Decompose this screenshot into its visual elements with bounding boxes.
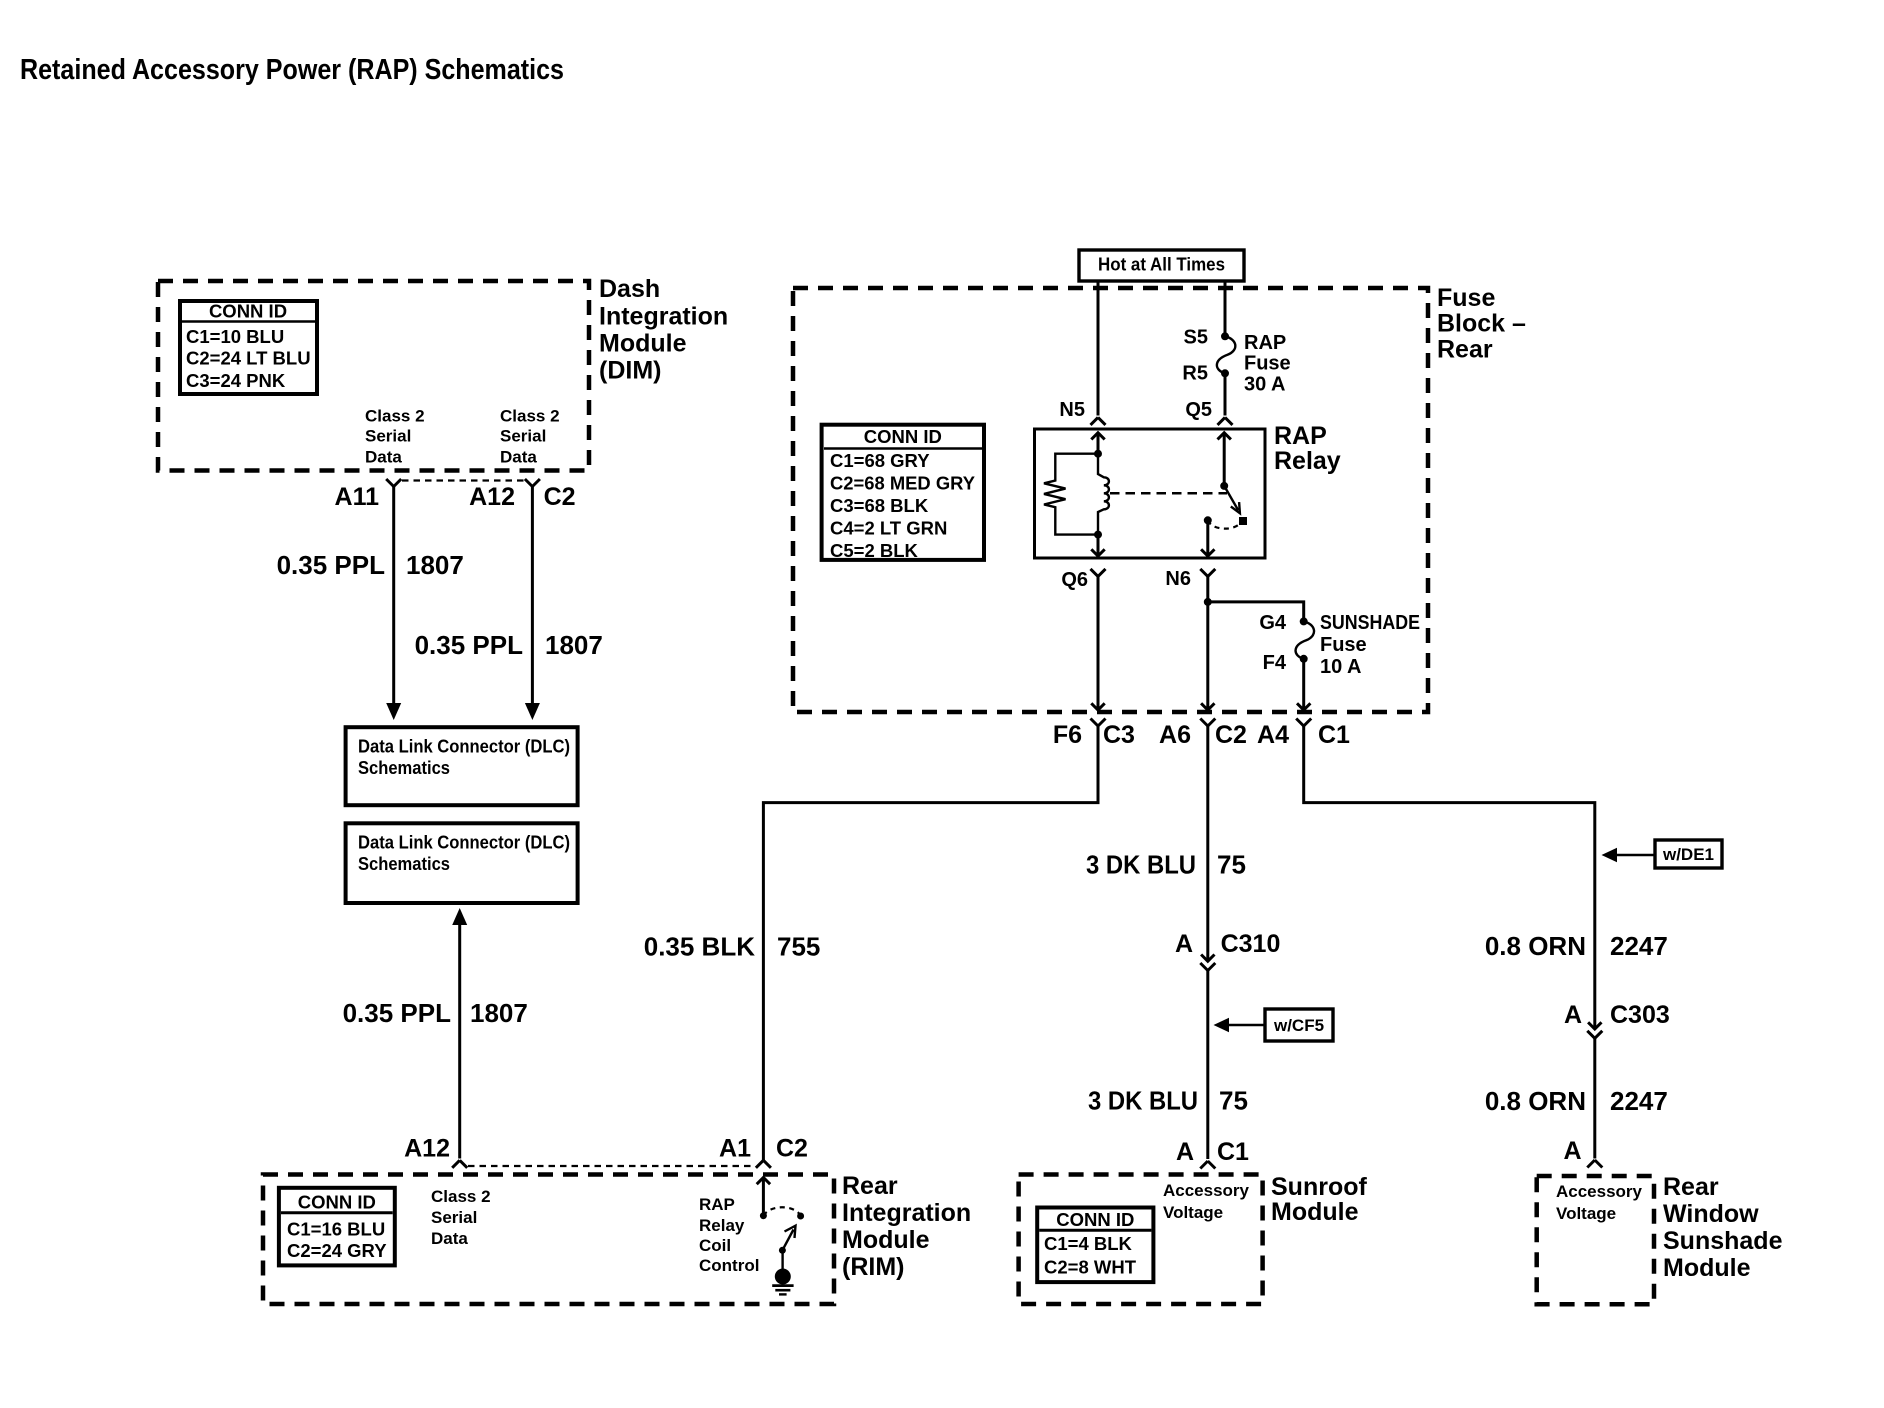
svg-text:Fuse: Fuse	[1320, 634, 1367, 656]
wire A12 to DLC	[531, 487, 534, 705]
RIM internal coil control arrow	[757, 1178, 770, 1216]
terminal F4 dot	[1300, 655, 1308, 663]
switch pivot dot (RIM)	[779, 1247, 786, 1254]
svg-text:Fuse: Fuse	[1437, 284, 1495, 312]
svg-text:C2=24 LT BLU: C2=24 LT BLU	[186, 348, 311, 369]
fork F6/C3	[1091, 719, 1106, 727]
dashed switch arc (RIM)	[763, 1207, 800, 1215]
dashed contact arc	[1208, 520, 1241, 528]
svg-text:CONN ID: CONN ID	[864, 426, 942, 447]
svg-text:A1: A1	[719, 1135, 751, 1163]
svg-text:75: 75	[1219, 1086, 1248, 1116]
switch contact dot	[1239, 517, 1247, 525]
svg-text:Dash: Dash	[599, 275, 660, 303]
fuse SUNSHADE 10A S-curve	[1296, 621, 1314, 658]
svg-text:Q5: Q5	[1185, 399, 1212, 421]
fork N6 below relay	[1200, 569, 1215, 577]
svg-text:C1=4 BLK: C1=4 BLK	[1044, 1233, 1133, 1254]
svg-text:Integration: Integration	[842, 1199, 971, 1227]
inline connector C303	[1587, 1022, 1602, 1038]
svg-text:F4: F4	[1263, 652, 1287, 674]
DLC box 1	[346, 727, 578, 805]
svg-text:Data: Data	[431, 1229, 468, 1248]
svg-text:RAP: RAP	[1244, 332, 1286, 354]
svg-text:Class 2: Class 2	[500, 407, 560, 426]
w/CF5 tag box	[1214, 1009, 1334, 1041]
switch output dot	[1204, 516, 1212, 524]
svg-text:Serial: Serial	[500, 427, 546, 446]
svg-text:RAP: RAP	[699, 1195, 735, 1214]
svg-text:Relay: Relay	[699, 1216, 745, 1235]
Hot at All Times box	[1079, 250, 1244, 281]
branch wire to sunshade fuse	[1208, 602, 1304, 619]
Rear Window Sunshade Module dashed box	[1537, 1176, 1654, 1304]
svg-text:C1: C1	[1318, 721, 1350, 749]
svg-text:Q6: Q6	[1061, 569, 1088, 591]
CONN ID table (RIM)	[279, 1188, 395, 1266]
svg-text:Voltage: Voltage	[1163, 1203, 1223, 1222]
svg-text:3 DK BLU: 3 DK BLU	[1086, 850, 1196, 880]
svg-text:Schematics: Schematics	[358, 757, 450, 778]
wire N6 down	[1201, 576, 1214, 710]
fork into sunshade	[1587, 1160, 1602, 1168]
CONN ID table (DIM)	[180, 301, 317, 395]
svg-text:Class 2: Class 2	[365, 407, 425, 426]
svg-text:C3=24 PNK: C3=24 PNK	[186, 370, 286, 391]
DLC box 2	[346, 823, 578, 903]
svg-text:0.35 BLK: 0.35 BLK	[644, 932, 755, 962]
coil output arrow to Q6	[1091, 535, 1104, 556]
coil top junction dot	[1094, 450, 1102, 458]
svg-text:A: A	[1175, 930, 1193, 958]
connector fork A11	[386, 479, 401, 487]
svg-text:75: 75	[1217, 850, 1246, 880]
wire lower to sunshade	[1593, 1038, 1596, 1158]
svg-text:C5=2 BLK: C5=2 BLK	[830, 540, 919, 561]
svg-text:C4=2 LT GRN: C4=2 LT GRN	[830, 518, 947, 539]
Rear Integration Module (RIM) dashed box	[263, 1175, 834, 1305]
coil bottom junction dot	[1094, 531, 1102, 539]
svg-text:Window: Window	[1663, 1200, 1759, 1228]
svg-text:Module: Module	[1271, 1198, 1359, 1226]
svg-text:Serial: Serial	[431, 1208, 477, 1227]
svg-text:1807: 1807	[470, 998, 528, 1028]
ground symbol	[772, 1284, 793, 1287]
svg-text:C1: C1	[1217, 1138, 1249, 1166]
svg-text:A4: A4	[1257, 721, 1289, 749]
svg-text:(RIM): (RIM)	[842, 1253, 904, 1281]
thin dashed connector line DIM	[402, 479, 524, 481]
wire A6 branch upper	[1206, 726, 1209, 961]
svg-text:0.35 PPL: 0.35 PPL	[415, 630, 524, 660]
svg-text:A11: A11	[335, 483, 380, 511]
fork into sunroof	[1200, 1161, 1215, 1169]
svg-text:1807: 1807	[545, 630, 603, 660]
svg-text:Module: Module	[1663, 1254, 1751, 1282]
svg-text:0.35 PPL: 0.35 PPL	[343, 998, 452, 1028]
svg-text:Sunshade: Sunshade	[1663, 1227, 1783, 1255]
svg-text:Data Link Connector (DLC): Data Link Connector (DLC)	[358, 736, 570, 757]
svg-text:N6: N6	[1165, 568, 1191, 590]
relay coil	[1098, 454, 1109, 535]
resistor R (relay)	[1044, 454, 1098, 535]
switch arm with arrow (RIM)	[782, 1226, 795, 1251]
svg-text:Retained Accessory Power (RAP): Retained Accessory Power (RAP) Schematic…	[20, 54, 564, 86]
svg-text:Coil: Coil	[699, 1236, 731, 1255]
fork Q5 into relay	[1218, 417, 1233, 425]
svg-text:Block –: Block –	[1437, 310, 1526, 338]
switch output arrow to N6	[1201, 520, 1214, 556]
connector fork A12	[525, 479, 540, 487]
svg-text:A6: A6	[1159, 721, 1191, 749]
wire RIM A12 up to DLC2	[458, 924, 461, 1159]
svg-text:C310: C310	[1221, 930, 1281, 958]
wire A4 branch to sunshade	[1304, 726, 1595, 1029]
svg-text:0.35 PPL: 0.35 PPL	[277, 550, 386, 580]
svg-text:Module: Module	[842, 1226, 930, 1254]
svg-text:CONN ID: CONN ID	[1056, 1209, 1134, 1230]
switch arm with arrow	[1224, 486, 1240, 513]
fork A6/C2	[1200, 719, 1215, 727]
switch contact dot (RIM)	[797, 1213, 804, 1220]
svg-text:Rear: Rear	[1437, 336, 1493, 364]
svg-text:Schematics: Schematics	[358, 853, 450, 874]
wire A6 branch lower	[1206, 971, 1209, 1160]
svg-text:30 A: 30 A	[1244, 374, 1286, 396]
terminal G4 dot	[1300, 617, 1308, 625]
wire Q6 down	[1091, 576, 1104, 710]
ground ball	[775, 1269, 791, 1285]
switch pivot dot	[1220, 482, 1228, 490]
Dash Integration Module (DIM) dashed box	[158, 281, 589, 471]
svg-text:A: A	[1176, 1138, 1194, 1166]
svg-text:C2=24 GRY: C2=24 GRY	[287, 1240, 387, 1261]
coil control node dot	[760, 1212, 767, 1219]
svg-text:C3: C3	[1103, 721, 1135, 749]
fuse RAP 30A S-curve	[1217, 336, 1235, 373]
terminal S5 dot	[1221, 332, 1229, 340]
inline connector C310	[1200, 955, 1215, 971]
fork Q6 below relay	[1091, 569, 1106, 577]
svg-text:10 A: 10 A	[1320, 656, 1362, 678]
Sunroof Module dashed box	[1019, 1175, 1263, 1305]
svg-text:Sunroof: Sunroof	[1271, 1173, 1367, 1201]
Fuse Block - Rear dashed box	[793, 288, 1428, 712]
svg-text:R5: R5	[1182, 363, 1208, 385]
svg-text:F6: F6	[1053, 721, 1082, 749]
svg-text:Rear: Rear	[842, 1172, 898, 1200]
svg-text:2247: 2247	[1610, 1086, 1668, 1116]
svg-text:0.8 ORN: 0.8 ORN	[1485, 1086, 1586, 1116]
svg-text:C303: C303	[1610, 1001, 1670, 1029]
junction dot on N6	[1204, 598, 1212, 606]
svg-text:C3=68 BLK: C3=68 BLK	[830, 495, 929, 516]
dashed actuation link	[1110, 492, 1227, 495]
svg-text:Voltage: Voltage	[1556, 1204, 1616, 1223]
svg-text:CONN ID: CONN ID	[209, 301, 287, 322]
relay switch input arrow from Q5	[1218, 433, 1231, 486]
svg-text:A12: A12	[469, 483, 515, 511]
svg-text:C1=68 GRY: C1=68 GRY	[830, 450, 930, 471]
svg-text:A12: A12	[404, 1135, 450, 1163]
svg-text:Relay: Relay	[1274, 447, 1341, 475]
wire Q5 upper from hot	[1224, 281, 1227, 334]
wire to ground	[781, 1250, 783, 1269]
svg-text:2247: 2247	[1610, 931, 1668, 961]
svg-text:Accessory: Accessory	[1163, 1181, 1250, 1200]
svg-text:A: A	[1563, 1137, 1581, 1165]
svg-text:Serial: Serial	[365, 427, 411, 446]
svg-text:C2=8 WHT: C2=8 WHT	[1044, 1256, 1137, 1277]
svg-text:Data: Data	[500, 448, 537, 467]
svg-text:C1=16 BLU: C1=16 BLU	[287, 1218, 385, 1239]
svg-text:N5: N5	[1059, 399, 1085, 421]
svg-text:0.8 ORN: 0.8 ORN	[1485, 931, 1586, 961]
svg-text:755: 755	[777, 932, 820, 962]
wire F6 branch to RIM	[763, 726, 1098, 1160]
svg-text:S5: S5	[1184, 327, 1208, 349]
svg-text:C2: C2	[776, 1135, 808, 1163]
svg-text:1807: 1807	[406, 550, 464, 580]
thin dashed connector line RIM	[468, 1165, 755, 1167]
svg-text:Accessory: Accessory	[1556, 1182, 1643, 1201]
svg-text:(DIM): (DIM)	[599, 357, 661, 385]
svg-text:3 DK BLU: 3 DK BLU	[1088, 1086, 1198, 1116]
svg-text:Integration: Integration	[599, 303, 728, 331]
svg-text:C2=68 MED GRY: C2=68 MED GRY	[830, 473, 976, 494]
svg-text:SUNSHADE: SUNSHADE	[1320, 612, 1420, 634]
svg-text:G4: G4	[1259, 612, 1287, 634]
svg-text:Rear: Rear	[1663, 1173, 1719, 1201]
svg-text:C1=10 BLU: C1=10 BLU	[186, 326, 284, 347]
relay U1 RAP Relay box	[1035, 429, 1266, 558]
wire F4 down	[1297, 659, 1310, 710]
wire N5 from hot	[1097, 281, 1100, 416]
svg-text:CONN ID: CONN ID	[298, 1192, 376, 1213]
svg-text:Fuse: Fuse	[1244, 353, 1291, 375]
svg-text:RAP: RAP	[1274, 422, 1327, 450]
wire Q5 lower	[1224, 373, 1227, 415]
svg-text:Data: Data	[365, 448, 402, 467]
wire A11 to DLC	[392, 487, 395, 705]
svg-text:Class 2: Class 2	[431, 1187, 491, 1206]
connector fork A12 (RIM)	[452, 1160, 467, 1168]
CONN ID table (sunroof)	[1037, 1208, 1153, 1283]
svg-text:Hot at All Times: Hot at All Times	[1098, 254, 1225, 275]
svg-text:w/DE1: w/DE1	[1662, 845, 1714, 864]
svg-text:Control: Control	[699, 1256, 759, 1275]
terminal R5 dot	[1221, 369, 1229, 377]
svg-text:A: A	[1564, 1001, 1582, 1029]
fork A1/C2	[756, 1160, 771, 1168]
svg-text:C2: C2	[544, 483, 576, 511]
svg-text:Data Link Connector (DLC): Data Link Connector (DLC)	[358, 832, 570, 853]
svg-text:C2: C2	[1215, 721, 1247, 749]
CONN ID table (fuse block)	[822, 425, 984, 561]
w/DE1 tag box	[1602, 840, 1723, 868]
svg-text:w/CF5: w/CF5	[1273, 1016, 1324, 1035]
svg-text:Module: Module	[599, 330, 687, 358]
fork A4/C1	[1296, 719, 1311, 727]
relay coil input arrow	[1091, 433, 1104, 454]
fork N5 into relay	[1091, 417, 1106, 425]
